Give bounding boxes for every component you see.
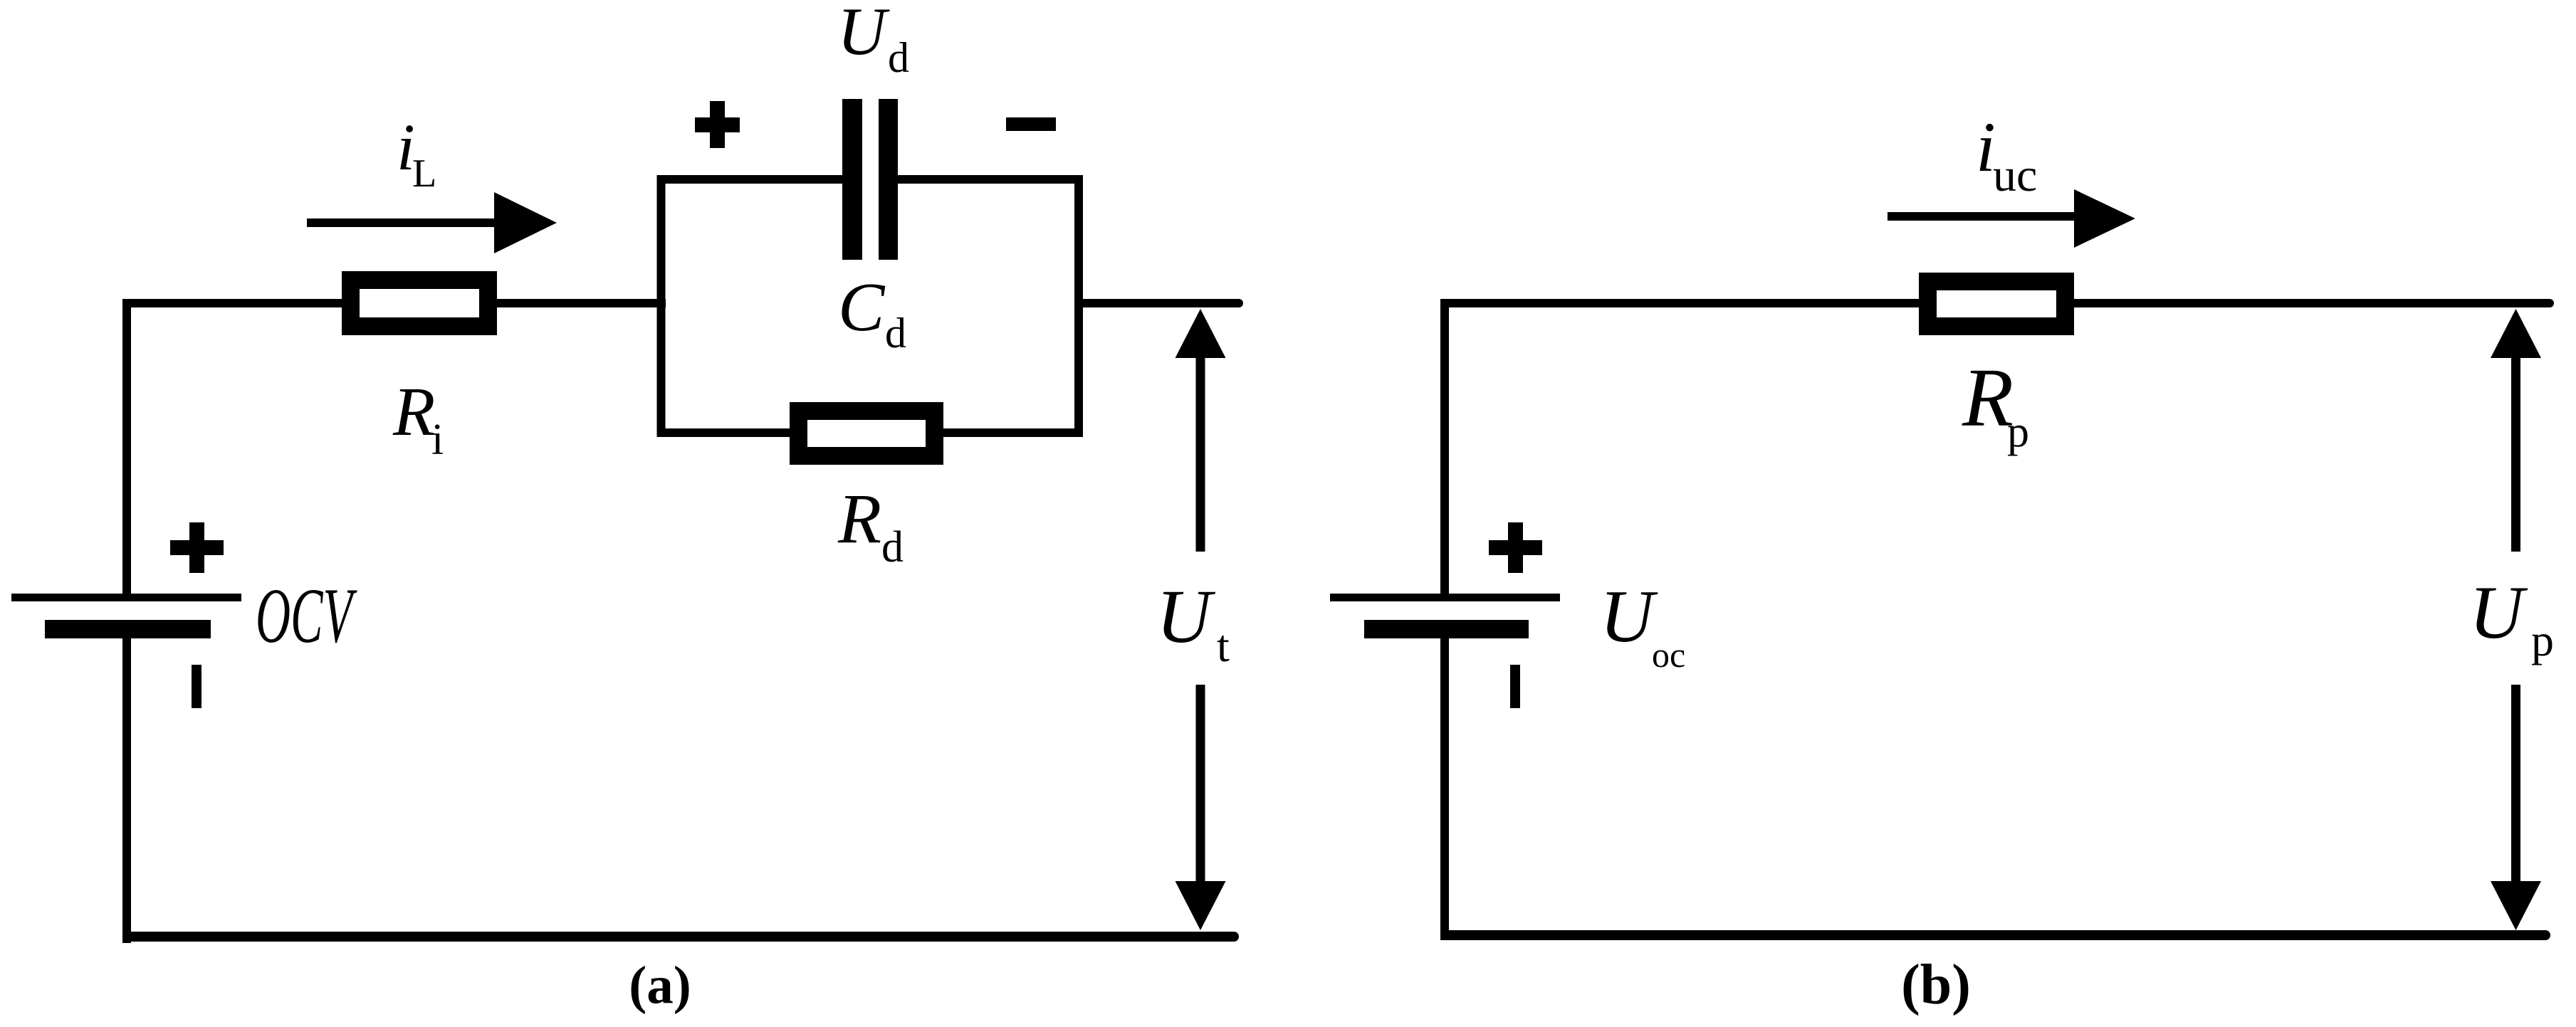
svg-text:L: L — [412, 152, 436, 196]
label Ri — [392, 374, 444, 464]
wire top horizontal (b) — [1440, 299, 2554, 307]
resistor Ri — [351, 280, 488, 327]
capacitor Cd left plate — [842, 99, 862, 260]
svg-text:oc: oc — [1652, 635, 1685, 675]
voltage arrow Ut upper shaft — [1196, 352, 1205, 552]
svg-text:U: U — [1156, 575, 1216, 659]
battery Uoc positive plate — [1330, 594, 1560, 601]
wire left vertical upper segment (b) — [1440, 299, 1449, 601]
RC block top wire left segment — [657, 175, 843, 184]
label Up — [2469, 571, 2554, 665]
label Rd — [837, 479, 904, 572]
svg-text:U: U — [2469, 571, 2528, 654]
svg-text:U: U — [837, 0, 890, 69]
capacitor minus sign — [1006, 117, 1056, 131]
svg-text:d: d — [881, 523, 904, 572]
label Cd — [838, 269, 906, 357]
battery OCV negative plate — [45, 620, 211, 638]
wire left vertical upper segment (a) — [122, 299, 131, 601]
RC block top wire right segment — [898, 175, 1083, 184]
svg-text:R: R — [837, 479, 881, 558]
svg-text:p: p — [2531, 615, 2554, 665]
resistor Rp — [1928, 282, 2065, 327]
voltage arrow Ut upper head — [1176, 309, 1226, 358]
capacitor plus sign — [695, 101, 740, 148]
svg-text:p: p — [2007, 408, 2029, 456]
voltage arrow Ut lower head — [1176, 881, 1226, 930]
voltage arrow Up lower head — [2491, 881, 2541, 930]
wire bottom horizontal (b) — [1440, 930, 2550, 940]
svg-text:U: U — [1600, 574, 1658, 658]
svg-text:R: R — [1962, 351, 2014, 444]
label Ud — [837, 0, 909, 81]
svg-text:i: i — [431, 416, 444, 464]
svg-text:C: C — [838, 269, 886, 346]
svg-text:OCV: OCV — [256, 572, 357, 659]
wire left vertical lower segment (b) — [1440, 620, 1449, 940]
battery Uoc negative plate — [1364, 620, 1529, 638]
current arrow iL — [307, 192, 557, 253]
current arrow iuc — [1888, 189, 2135, 248]
svg-text:uc: uc — [1993, 149, 2037, 201]
label iuc — [1976, 107, 2037, 201]
battery OCV plus sign — [170, 522, 224, 573]
battery Uoc minus sign — [1510, 665, 1520, 708]
svg-text:d: d — [888, 34, 909, 81]
capacitor Cd right plate — [879, 99, 898, 260]
voltage arrow Up upper head — [2491, 309, 2541, 358]
wire bottom horizontal (a) — [122, 932, 1239, 942]
label Ut — [1156, 575, 1230, 671]
voltage arrow Up upper shaft — [2511, 352, 2520, 552]
svg-text:(a): (a) — [629, 956, 691, 1015]
RC block bottom wire — [657, 428, 1084, 437]
svg-text:(b): (b) — [1901, 954, 1971, 1016]
wire left vertical lower segment (a) — [122, 620, 131, 943]
voltage arrow Up lower shaft — [2511, 685, 2520, 886]
battery Uoc plus sign — [1489, 522, 1542, 573]
wire top horizontal left segment (a) — [122, 299, 666, 307]
resistor Rd — [799, 411, 935, 456]
svg-text:R: R — [392, 374, 435, 450]
voltage arrow Ut lower shaft — [1196, 685, 1205, 886]
wire top horizontal right segment (a) — [1074, 299, 1243, 307]
RC block right vertical line — [1074, 175, 1083, 437]
label Rp — [1962, 351, 2029, 456]
label iL — [397, 111, 436, 196]
svg-text:t: t — [1217, 621, 1230, 671]
RC block left vertical line — [657, 175, 666, 437]
label Uoc — [1600, 574, 1685, 675]
svg-text:d: d — [885, 310, 906, 357]
battery OCV minus sign — [192, 665, 201, 708]
battery OCV positive plate — [11, 594, 241, 601]
